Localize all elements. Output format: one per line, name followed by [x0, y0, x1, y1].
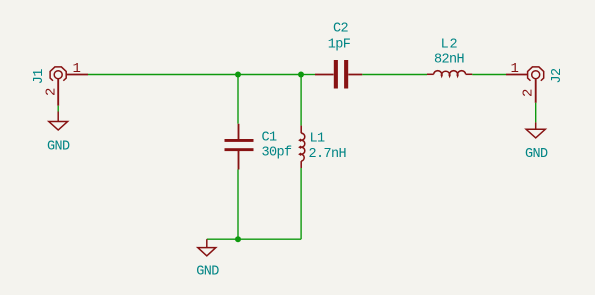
svg-text:2.7nH: 2.7nH: [309, 147, 347, 162]
J2 pin 2: [535, 79, 537, 103]
svg-text:30pf: 30pf: [262, 145, 293, 160]
power symbol GND at J1: [49, 112, 68, 131]
junction node A: [235, 72, 241, 78]
svg-text:L1: L1: [310, 132, 326, 147]
svg-text:1: 1: [73, 61, 81, 77]
svg-text:GND: GND: [525, 147, 548, 162]
wire node A to node B: [238, 74, 301, 76]
svg-text:L2: L2: [441, 38, 459, 53]
junction node G: [235, 236, 241, 242]
wire J1 to node A: [88, 74, 238, 76]
svg-text:2: 2: [521, 89, 537, 97]
J1 pin 2: [57, 79, 59, 106]
svg-text:1: 1: [511, 61, 519, 77]
junction node B: [298, 72, 304, 78]
svg-text:2: 2: [44, 88, 60, 96]
wire J1 pin 2 to GND: [57, 106, 59, 112]
ground bus wire: [207, 238, 301, 240]
svg-text:J1: J1: [32, 69, 47, 85]
svg-text:GND: GND: [196, 265, 219, 280]
wire J2 pin 2 to GND: [535, 103, 537, 123]
svg-text:C1: C1: [262, 131, 278, 146]
svg-text:C2: C2: [333, 22, 349, 37]
svg-text:GND: GND: [47, 139, 70, 154]
wire node B to L1: [300, 75, 302, 126]
wire node A to C1: [237, 75, 239, 124]
power symbol GND at J2: [526, 122, 545, 137]
capacitor C2: [315, 60, 362, 89]
inductor L1: [300, 126, 305, 168]
wire C1 to ground bus: [237, 170, 239, 240]
svg-text:1pF: 1pF: [328, 38, 351, 53]
wire L2 to J2: [472, 74, 506, 76]
connector J1: [50, 67, 66, 81]
wire L1 to ground bus: [300, 168, 302, 239]
svg-text:J2: J2: [550, 68, 565, 84]
J2 pin 1: [506, 74, 527, 76]
connector J2: [528, 67, 544, 81]
J1 pin 1: [67, 74, 88, 76]
inductor L2: [427, 71, 472, 76]
wire C2 to L2: [362, 74, 427, 76]
power symbol GND at bus: [198, 239, 216, 256]
capacitor C1: [225, 124, 254, 170]
wire node B to C2: [301, 74, 315, 76]
svg-text:82nH: 82nH: [434, 53, 465, 68]
